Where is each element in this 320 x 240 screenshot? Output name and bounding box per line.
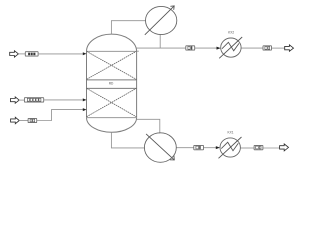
svg-text:KX2: KX2 (228, 31, 234, 35)
svg-text:KX1: KX1 (227, 130, 233, 134)
svg-text:RD: RD (109, 81, 114, 85)
